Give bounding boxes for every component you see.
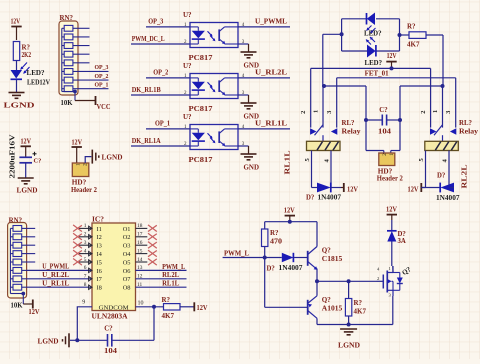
svg-text:RL2L: RL2L <box>461 164 469 188</box>
wire relay pole interconnect right <box>400 85 443 87</box>
svg-text:R?: R? <box>354 299 363 307</box>
svg-text:4K7: 4K7 <box>354 307 367 315</box>
svg-text:10: 10 <box>138 300 144 306</box>
svg-text:Q?: Q? <box>322 296 331 304</box>
svg-text:1: 1 <box>432 110 439 113</box>
wire cap left riser <box>365 86 367 151</box>
svg-text:C1815: C1815 <box>322 255 343 263</box>
svg-text:1N4007: 1N4007 <box>279 265 304 272</box>
svg-text:OP_2: OP_2 <box>95 73 110 80</box>
wire RN? row 5 stub <box>78 62 90 64</box>
svg-text:I3: I3 <box>97 243 102 250</box>
relay contact right <box>450 128 456 135</box>
svg-text:4K7: 4K7 <box>162 312 175 320</box>
wire net DK_RL1A (opto input low) <box>131 145 190 147</box>
ground LGND (header) <box>91 150 93 164</box>
wire net U_RL2L (opto output) <box>238 77 290 79</box>
svg-text:I7: I7 <box>97 276 103 283</box>
svg-text:12V: 12V <box>284 207 295 215</box>
relay pole lever <box>315 125 324 135</box>
svg-text:O6: O6 <box>123 268 131 275</box>
relay coil <box>425 141 459 150</box>
svg-text:10K: 10K <box>11 302 24 310</box>
junction RN? common <box>73 90 77 94</box>
wire opto emitter to GND <box>238 94 249 96</box>
svg-text:D?: D? <box>398 231 406 238</box>
RN? element 2 <box>64 34 73 40</box>
svg-text:104: 104 <box>378 129 392 136</box>
svg-text:Relay: Relay <box>342 128 362 136</box>
wire emitter to node <box>316 269 318 282</box>
svg-text:C?: C? <box>34 158 42 165</box>
svg-text:D?: D? <box>437 173 445 180</box>
power VCC <box>95 96 97 105</box>
svg-text:R?: R? <box>407 22 416 30</box>
svg-text:GNDCOM: GNDCOM <box>99 304 129 311</box>
ground LGND (driver) <box>340 328 357 330</box>
ULN output stub pin 15 (no connect) <box>136 253 148 255</box>
ground GND (opto) <box>241 102 257 104</box>
svg-text:RL?: RL? <box>459 119 472 127</box>
RN? (bottom) element 1 <box>13 226 22 232</box>
capacitor C? 104 (ULN) <box>77 339 107 341</box>
svg-text:104: 104 <box>104 348 118 355</box>
svg-text:RL2L: RL2L <box>162 272 179 279</box>
wire left pole riser <box>322 34 324 86</box>
svg-text:470: 470 <box>270 237 283 245</box>
RN? element 1 <box>64 25 73 31</box>
wire net OP_1 (RN side) <box>78 88 109 90</box>
svg-text:12V: 12V <box>21 138 32 146</box>
svg-text:2: 2 <box>420 111 427 114</box>
wire net U_RL2L (RN to ULN I7) <box>27 278 92 280</box>
svg-text:Q?: Q? <box>322 246 331 254</box>
optocoupler U? PC817 #1 <box>190 23 238 48</box>
wire net OP_1 (opto input) <box>146 128 190 130</box>
ground GND (opto) <box>241 51 257 53</box>
svg-text:O4: O4 <box>123 251 132 258</box>
wire net OP_2 (RN side) <box>78 79 109 81</box>
wire R? to right relay pole <box>426 34 443 36</box>
svg-text:I6: I6 <box>97 268 102 275</box>
power 12V (right relay) <box>420 183 422 192</box>
wire net PWM_L (ULN O6 output) <box>136 269 187 271</box>
svg-text:ULN2803A: ULN2803A <box>92 313 128 321</box>
wire RN? (bottom) row 2 stub <box>27 236 36 238</box>
diode D? 3A (flyback) <box>387 230 397 232</box>
wire driver top rail <box>265 221 317 223</box>
RN? (bottom) element 2 <box>13 234 22 240</box>
ground GND (opto) <box>241 153 257 155</box>
junction base node <box>263 256 267 260</box>
svg-text:LED?: LED? <box>365 59 383 67</box>
svg-text:12V: 12V <box>408 185 419 193</box>
wire MOSFET source down <box>392 296 394 325</box>
wire bottom rail (driver) <box>317 324 393 326</box>
svg-text:PWM_DC_L: PWM_DC_L <box>132 35 165 43</box>
svg-text:2: 2 <box>83 163 89 166</box>
transistor Q? C1815 (NPN) <box>307 251 309 266</box>
diode D? 1N4007 (left relay) <box>317 183 331 193</box>
svg-text:I5: I5 <box>97 259 102 266</box>
svg-text:Header 2: Header 2 <box>71 186 97 194</box>
ULN input stub pin 3 (no connect) <box>79 244 92 246</box>
transistor Q? MOSFET <box>377 280 384 282</box>
wire net PWM_DC_L (opto input low) <box>131 43 190 45</box>
power 12V (left relay) <box>343 183 345 192</box>
svg-text:DK_RL1B: DK_RL1B <box>132 86 161 94</box>
svg-text:D?: D? <box>267 265 275 272</box>
wire drain up <box>392 266 394 273</box>
RN? (bottom) element 4 <box>13 251 22 257</box>
svg-text:U?: U? <box>183 11 192 19</box>
power 12V (RN bottom) <box>32 300 34 309</box>
RN? element 4 <box>64 51 73 57</box>
RN? (bottom) element 6 <box>13 268 22 274</box>
wire base bus down <box>264 258 266 308</box>
svg-text:OP_1: OP_1 <box>95 82 109 89</box>
ULN output stub pin 14 (no connect) <box>136 261 148 263</box>
wire PNP collector down <box>316 318 318 324</box>
svg-text:1N4007: 1N4007 <box>436 195 460 202</box>
relay contact right <box>331 128 337 135</box>
junction loop right <box>398 33 402 37</box>
svg-text:10K: 10K <box>61 99 74 107</box>
wire opto emitter to GND <box>238 145 249 147</box>
wire LED cathode to ground <box>16 79 18 92</box>
wire pin10 node down <box>153 307 155 341</box>
wire RN? (bottom) row 3 stub <box>27 244 36 246</box>
svg-text:4K7: 4K7 <box>407 40 420 48</box>
wire net RL1L (ULN O8 output) <box>136 286 187 288</box>
ULN input stub pin 4 (no connect) <box>79 253 92 255</box>
ground LGND (ULN) <box>70 339 77 341</box>
junction pole left <box>322 84 326 88</box>
svg-text:C?: C? <box>379 107 387 114</box>
diode D? 1N4007 (driver) <box>282 253 294 262</box>
svg-text:LED?: LED? <box>27 69 45 77</box>
ULN input stub pin 1 (no connect) <box>79 227 92 229</box>
wire driver output node <box>317 280 377 282</box>
RN? (bottom) element 8 <box>13 284 22 290</box>
wire relay pole interconnect left <box>324 85 366 87</box>
capacitor C? 104 (relay) <box>366 119 382 121</box>
junction cap right <box>398 118 402 122</box>
resistor R? 470 <box>264 222 266 229</box>
svg-text:LGND: LGND <box>4 101 36 110</box>
resistor R? 4K7 (top right) <box>400 34 410 36</box>
LED loop rectangle <box>341 19 343 51</box>
wire left relay bottom <box>312 187 318 189</box>
svg-text:O5: O5 <box>123 259 131 266</box>
wire to header pins <box>366 150 384 152</box>
junction pin10 node <box>152 305 156 309</box>
optocoupler U? PC817 #2 <box>190 74 238 99</box>
wire RN? (bottom) row 1 stub <box>27 227 36 229</box>
svg-text:I4: I4 <box>97 251 103 258</box>
svg-text:DK_RL1A: DK_RL1A <box>132 137 162 145</box>
wire opto emitter to GND <box>238 43 249 45</box>
wire net DK_RL1B (opto input low) <box>131 94 190 96</box>
LED LED? (top, anti-parallel) <box>366 13 368 25</box>
svg-text:2: 2 <box>382 153 388 156</box>
svg-text:PC817: PC817 <box>189 54 214 62</box>
LED LED? (bottom, anti-parallel) <box>367 45 376 58</box>
wire 12V rail <box>311 67 431 69</box>
svg-text:LED?: LED? <box>364 29 382 37</box>
svg-text:PWM_L: PWM_L <box>224 249 249 257</box>
svg-text:12V: 12V <box>386 206 397 214</box>
svg-text:O8: O8 <box>123 285 131 292</box>
svg-text:9: 9 <box>82 300 85 306</box>
svg-text:GND: GND <box>244 162 260 171</box>
diode D? 1N4007 (right relay) <box>421 187 440 189</box>
RN? element 6 <box>64 69 73 75</box>
wire RN? row 1 stub <box>78 27 90 29</box>
svg-text:PC817: PC817 <box>189 156 214 164</box>
svg-text:U_PWML: U_PWML <box>255 17 287 25</box>
wire cap right riser <box>399 86 401 151</box>
svg-text:FET_01: FET_01 <box>365 69 389 77</box>
relay pole lever <box>434 125 443 135</box>
svg-text:LGND: LGND <box>17 185 38 194</box>
svg-text:Relay: Relay <box>459 128 479 136</box>
svg-text:RL1L: RL1L <box>162 281 179 288</box>
svg-text:VCC: VCC <box>97 102 111 111</box>
svg-text:12V: 12V <box>387 52 397 60</box>
wire net OP_2 (opto input) <box>146 77 190 79</box>
svg-text:LGND: LGND <box>338 341 360 350</box>
svg-text:2: 2 <box>300 111 307 114</box>
svg-text:U_RL2L: U_RL2L <box>255 68 287 76</box>
wire RN? row 4 stub <box>78 53 90 55</box>
junction LGND node <box>75 338 79 342</box>
RN? element 3 <box>64 43 73 49</box>
svg-text:A1015: A1015 <box>322 304 343 312</box>
junction pole right <box>441 84 445 88</box>
wire collector to rail <box>316 222 318 247</box>
relay coil <box>307 141 341 150</box>
svg-text:1: 1 <box>389 153 395 156</box>
ULN input stub pin 2 (no connect) <box>79 236 92 238</box>
ULN input stub pin 5 (no connect) <box>79 261 92 263</box>
svg-text:OP_1: OP_1 <box>155 119 170 127</box>
junction cap left <box>364 118 368 122</box>
svg-text:1: 1 <box>313 110 320 113</box>
svg-text:I8: I8 <box>97 285 102 292</box>
junction RN? (bottom) common <box>21 292 25 296</box>
svg-text:3A: 3A <box>398 238 406 245</box>
svg-text:LGND: LGND <box>38 337 59 346</box>
wire net U_PWML (RN to ULN I6) <box>27 269 92 271</box>
wire net U_RL1L (opto output) <box>238 128 290 130</box>
svg-text:RL1L: RL1L <box>284 150 292 174</box>
svg-text:12V: 12V <box>347 185 358 193</box>
svg-text:D?: D? <box>306 194 314 201</box>
RN? (bottom) element 5 <box>13 259 22 265</box>
relay contact left <box>310 128 316 135</box>
svg-text:O1: O1 <box>123 226 131 233</box>
wire net PWM_L (driver input) <box>223 257 282 259</box>
wire RN? (bottom) row 5 stub <box>27 261 36 263</box>
junction R bottom <box>347 323 351 327</box>
power 12V (ULN pullup) <box>193 302 195 311</box>
wire LED loop left <box>323 33 342 35</box>
ULN output stub pin 17 (no connect) <box>136 236 148 238</box>
junction gate resistor node <box>347 279 351 283</box>
wire RN? row 3 stub <box>78 45 90 47</box>
svg-text:LED12V: LED12V <box>27 79 50 87</box>
svg-text:OP_3: OP_3 <box>148 17 163 25</box>
svg-text:I2: I2 <box>97 234 102 241</box>
svg-text:U_RL1L: U_RL1L <box>255 119 287 127</box>
svg-text:U_PWML: U_PWML <box>42 264 69 271</box>
wire net RL2L (ULN O7 output) <box>136 278 187 280</box>
svg-text:12V: 12V <box>29 308 40 316</box>
LED LED? LED12V <box>11 70 23 79</box>
wire RN? row 2 stub <box>78 36 90 38</box>
transistor Q? A1015 (PNP) <box>307 300 309 315</box>
wire net OP_3 (opto input) <box>146 26 190 28</box>
svg-text:O2: O2 <box>123 234 131 241</box>
svg-text:RL?: RL? <box>342 119 355 127</box>
svg-text:U?: U? <box>183 62 192 70</box>
header HD? Header 2 (relay output) <box>379 153 395 166</box>
wire PNP emitter up <box>316 281 318 296</box>
optocoupler U? PC817 #3 <box>190 125 238 150</box>
svg-text:O7: O7 <box>123 276 132 283</box>
svg-text:U_RL2L: U_RL2L <box>42 272 69 279</box>
svg-text:12V: 12V <box>11 17 21 26</box>
RN? common bus <box>61 28 63 91</box>
ULN output stub pin 18 (no connect) <box>136 227 148 229</box>
RN? element 7 <box>64 77 73 83</box>
wire header pin2 to LGND <box>85 157 91 163</box>
svg-text:1: 1 <box>76 163 82 166</box>
svg-text:U?: U? <box>183 113 192 121</box>
ground LGND (LED) <box>9 92 25 94</box>
svg-text:U_RL1L: U_RL1L <box>42 280 69 287</box>
wire net OP_3 (RN side) <box>78 70 109 72</box>
RN? (bottom) common bus <box>9 228 11 293</box>
svg-text:2K2: 2K2 <box>22 51 32 59</box>
RN? (bottom) element 7 <box>13 276 22 282</box>
svg-text:OP_3: OP_3 <box>95 64 110 71</box>
ground LGND (2200uF) <box>18 177 34 179</box>
junction 12V driver <box>288 220 292 224</box>
svg-text:12V: 12V <box>72 138 83 146</box>
svg-text:R?: R? <box>270 229 279 237</box>
svg-text:LGND: LGND <box>102 153 123 162</box>
svg-text:Header 2: Header 2 <box>377 174 403 182</box>
RN? element 5 <box>64 60 73 66</box>
relay contact left <box>430 128 436 135</box>
RN? element 8 <box>64 86 73 92</box>
junction 12V rail <box>390 66 394 70</box>
svg-text:PWM_L: PWM_L <box>162 264 185 271</box>
resistor R? 4K7 (gate pulldown) <box>348 281 350 298</box>
junction emitter node <box>315 279 319 283</box>
junction loop left <box>340 32 344 36</box>
RN? (bottom) element 3 <box>13 242 22 248</box>
svg-text:O3: O3 <box>123 243 131 250</box>
svg-text:PC817: PC817 <box>189 105 214 113</box>
svg-text:R?: R? <box>162 296 171 304</box>
ULN output stub pin 16 (no connect) <box>136 244 148 246</box>
svg-text:2200uF16V: 2200uF16V <box>9 134 17 179</box>
svg-text:C?: C? <box>104 326 112 333</box>
resistor R? 2K2 <box>13 42 19 61</box>
svg-text:1N4007: 1N4007 <box>318 194 342 201</box>
svg-text:OP_2: OP_2 <box>153 68 168 76</box>
wire RN? (bottom) row 4 stub <box>27 253 36 255</box>
wire net U_RL1L (RN to ULN I8) <box>27 286 92 288</box>
svg-text:I1: I1 <box>97 226 102 233</box>
wire net U_PWML (opto output) <box>238 26 290 28</box>
wire net FET_01 <box>337 77 456 79</box>
wire right pole down <box>442 86 444 128</box>
svg-text:12V: 12V <box>197 304 208 312</box>
